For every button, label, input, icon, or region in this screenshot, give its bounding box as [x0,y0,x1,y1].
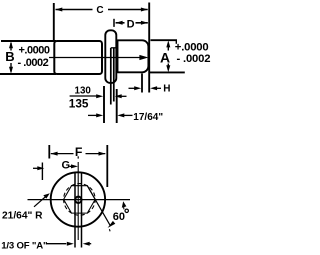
leader 60 deg upper arrow [122,201,127,207]
wire: B top extension line [1,40,56,42]
wire: C left extension line [53,3,55,41]
dimension C line right segment [108,9,148,11]
svg-text:- .0002: - .0002 [177,53,211,65]
shank cylinder (B dia) [54,41,102,74]
wire: G left extension line [41,163,43,181]
slot bottom line [111,47,118,49]
wire: B bottom extension line [0,73,56,75]
dimension G left arrow [33,167,38,169]
arrow B up [9,41,13,48]
svg-text:F: F [75,145,83,159]
wire: extension line Va (x=104) [103,86,105,123]
wire: H extension line [141,74,143,93]
flange disc (edge view) [105,30,116,83]
dimension H left arrow [129,87,138,89]
wire: A top extension line [151,39,178,41]
dimension H right arrow [150,86,157,90]
dimension 130/135 right arrow [115,94,122,98]
svg-text:17/64": 17/64" [133,112,163,123]
svg-text:G: G [62,160,71,172]
dimension F line [51,153,74,155]
hex chamfer outline [64,186,96,213]
svg-text:H: H [163,84,170,95]
arrow C right [141,8,148,12]
leader 21/64 R [34,195,48,207]
wire: horizontal centerline [28,199,131,201]
svg-text:21/64" R: 21/64" R [2,211,43,222]
arrow A down [166,65,170,72]
arrow F right [99,152,106,156]
svg-text:+.0000: +.0000 [175,42,209,54]
arrow D right [141,21,148,25]
dimension A vertical line [167,43,169,51]
part centerline with arrow [49,57,144,59]
dimension C line left segment [56,9,93,11]
arrow C left [55,8,62,12]
dimension 17/64 left arrow [88,114,99,116]
arrow B down [9,67,13,74]
hidden head circle (dashed) [64,184,96,216]
svg-text:B: B [5,49,14,64]
svg-text:D: D [127,18,135,30]
slot edge lines (side view) [110,48,112,105]
wire: A bottom extension line [150,71,185,73]
60 deg flank line extended [87,186,110,227]
arrow D left [116,21,123,25]
dimension D tick [113,19,115,27]
wire: F right extension line [106,145,108,187]
dimension 130/135 fraction bar + left arrow [70,95,100,97]
dimension B vertical line [10,43,12,51]
arrow centerline right [139,55,148,60]
svg-text:A: A [160,49,170,65]
dimension D line [116,22,125,24]
leader 60 deg lower arrow [108,221,116,228]
dimension 17/64 right arrow [117,113,124,117]
wire: vertical centerline [77,162,79,240]
center hole [75,197,81,203]
wire: vertical centerline dash [77,156,79,158]
svg-text:60: 60 [113,211,125,223]
dimension 1/3 OF A right arrow [83,242,90,246]
dimension G arrow [70,165,74,167]
svg-text:C: C [96,5,103,16]
label 60 degree ring [125,209,128,212]
wire: right extension line (full, C/D/H) [148,3,150,93]
slot edge lines (bottom view) [74,173,76,248]
svg-text:130: 130 [75,85,92,96]
svg-text:1/3 OF "A": 1/3 OF "A" [1,241,47,252]
wire: A top ext end stub [175,40,177,44]
wire: extension line Vb (x=116.4) [116,89,118,123]
svg-text:+.0000: +.0000 [19,44,50,56]
wire: F left extension line [48,145,50,159]
head cylinder (A dia) [118,40,149,72]
arrow F left [51,152,58,156]
arrow A up [166,40,170,47]
svg-text:- .0002: - .0002 [18,57,49,69]
flange outer circle [51,172,105,226]
dimension 1/3 OF A left arrow [46,243,66,245]
svg-text:135: 135 [69,96,89,110]
